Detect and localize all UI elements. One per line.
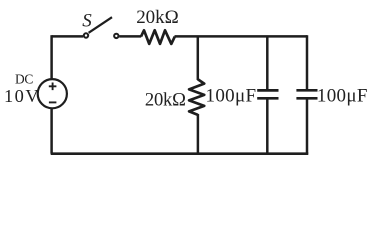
wire bottom horizontal [51, 152, 309, 155]
switch S right terminal [114, 34, 118, 38]
capacitor C1 plates [257, 90, 278, 98]
wire resistor R2 bottom lead [197, 114, 200, 154]
voltage source plus sign [49, 83, 57, 91]
capacitor C2 plates [296, 90, 317, 98]
wire top horizontal right [175, 35, 308, 38]
switch S left terminal [84, 33, 88, 37]
svg-text:DC: DC [15, 71, 33, 86]
wire capacitor C1 top lead [266, 36, 269, 89]
wire right vertical upper (to C2) [306, 35, 309, 89]
resistor R2 20k vertical zigzag [189, 79, 204, 115]
wire switch to resistor R1 [119, 35, 141, 38]
svg-text:10V: 10V [4, 86, 39, 106]
wire left vertical lower [50, 108, 53, 154]
svg-text:S: S [82, 10, 92, 31]
wire capacitor C1 bottom lead [266, 98, 269, 154]
voltage source minus sign [49, 101, 57, 103]
resistor R1 20k horizontal zigzag [141, 30, 175, 44]
wire resistor R2 top lead [197, 36, 200, 80]
svg-text:100μF: 100μF [206, 85, 257, 106]
voltage source V1 circle [38, 79, 67, 108]
wire left vertical upper [50, 35, 53, 79]
wire top-left horizontal [52, 35, 84, 38]
svg-text:20kΩ: 20kΩ [136, 7, 179, 28]
wire right vertical lower (from C2) [306, 98, 309, 154]
svg-text:100μF: 100μF [317, 85, 368, 106]
switch S blade [89, 17, 112, 33]
svg-text:20kΩ: 20kΩ [145, 90, 186, 111]
